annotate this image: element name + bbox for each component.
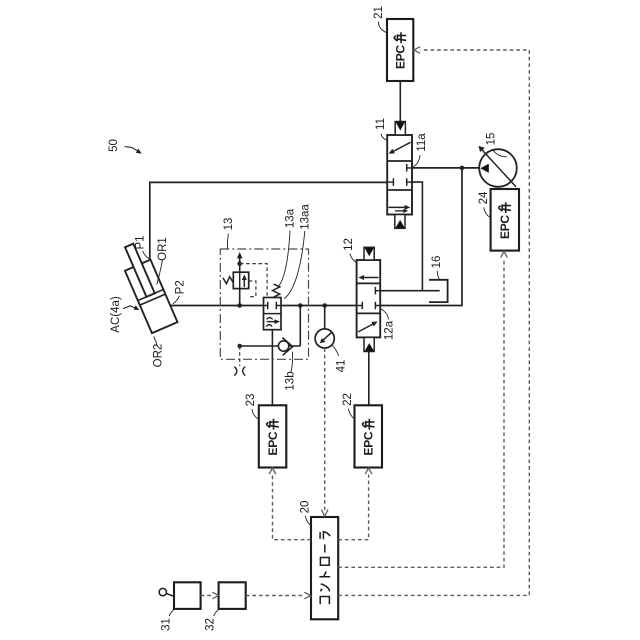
wire main P2 line from cylinder head-end right to valve 13a left port bbox=[171, 305, 264, 307]
throttle orifice on drain bbox=[234, 367, 245, 376]
EPC valve 23 box bbox=[259, 405, 287, 467]
valve 11 bottom pilot triangle bbox=[395, 220, 404, 228]
svg-text:24: 24 bbox=[478, 191, 490, 204]
chain-dot enclosure box 13 bbox=[220, 249, 308, 359]
wire from valve 11 lower-right port down to tank line bbox=[412, 182, 422, 291]
wire from EPC valve 21 down to valve 11 pilot bbox=[399, 81, 401, 121]
EPC valve 21 text bbox=[393, 32, 407, 69]
wire relief branch below square to main line bbox=[239, 289, 241, 306]
svg-text:20: 20 bbox=[299, 501, 311, 514]
arrow into EPC21 right bbox=[414, 47, 420, 54]
dashed drain line below branch dot bbox=[239, 346, 241, 366]
wire P1 line from cylinder rod-end up and right to valve 11 left port bbox=[150, 182, 387, 260]
arrow into controller top bbox=[321, 510, 328, 517]
lever box 31 bbox=[174, 582, 201, 609]
svg-text:22: 22 bbox=[342, 393, 354, 406]
svg-text:23: 23 bbox=[245, 394, 257, 407]
rod bbox=[125, 244, 155, 297]
arrow into EPC22 bottom bbox=[365, 468, 372, 474]
wire from valve 13a bottom through check line down to EPC valve 23 bbox=[271, 330, 273, 405]
pump triangle bbox=[480, 164, 488, 173]
arrowhead valve 12 top arrow left bbox=[358, 275, 364, 280]
svg-text:21: 21 bbox=[373, 6, 385, 19]
pump variable diagonal bbox=[482, 150, 516, 187]
svg-text:13b: 13b bbox=[285, 371, 297, 390]
sensor 41 bbox=[315, 329, 334, 348]
dashed controller to EPC 24 bbox=[338, 258, 504, 567]
svg-text:11: 11 bbox=[375, 118, 387, 130]
arrowhead valve 11 diagonal bbox=[389, 149, 395, 154]
svg-text:13: 13 bbox=[223, 218, 235, 231]
lower section throttle arcs bbox=[266, 318, 272, 327]
lever stem bbox=[166, 593, 174, 596]
valve 11 bottom pilot stub bbox=[395, 215, 405, 229]
dashed 32 to controller bbox=[246, 595, 304, 597]
dashed relief pilot loop bbox=[248, 281, 256, 297]
svg-text:P1: P1 bbox=[134, 235, 146, 249]
valve 11 body bbox=[387, 135, 412, 215]
EPC valve 24 text bbox=[498, 202, 512, 239]
wire sensor 41 branch from main line bbox=[324, 306, 326, 330]
arrow into EPC23 bottom bbox=[269, 468, 276, 474]
open arrowheads on dashed lines bbox=[212, 47, 507, 599]
valve 13a spring bbox=[273, 284, 280, 297]
wire from valve 12 bottom pilot down to EPC valve 22 bbox=[368, 352, 370, 405]
svg-text:AC(4a): AC(4a) bbox=[110, 296, 122, 333]
dashed sensor 41 to controller bbox=[324, 348, 326, 510]
svg-text:12: 12 bbox=[343, 238, 355, 251]
lever knob circle bbox=[159, 588, 166, 595]
junction dot lower branch bbox=[237, 344, 242, 349]
arrow into controller left bbox=[304, 592, 310, 599]
piston bbox=[138, 290, 165, 306]
wire relief branch above square to junction dot bbox=[239, 264, 241, 273]
arrow into EPC24 bottom bbox=[501, 251, 508, 257]
svg-text:16: 16 bbox=[431, 256, 443, 269]
dashed controller to EPC 21 bbox=[338, 50, 529, 595]
valve 12 top pilot triangle bbox=[364, 248, 374, 257]
lower section arrow shaft bbox=[267, 321, 277, 323]
arrowhead pump diagonal bbox=[478, 146, 484, 152]
svg-text:50: 50 bbox=[108, 139, 120, 152]
dashed controller to EPC 22 bbox=[338, 475, 368, 540]
pump 15 bbox=[479, 149, 517, 187]
valve 11 top pilot stub bbox=[395, 122, 405, 136]
top section diagonal arrow shaft bbox=[391, 142, 411, 152]
labels (rotated) bbox=[108, 6, 507, 631]
svg-text:11a: 11a bbox=[416, 133, 428, 152]
junction dot check branch bbox=[298, 303, 303, 308]
controller text コントローラ bbox=[319, 532, 330, 605]
arrowhead 13a lower right bbox=[274, 319, 280, 324]
wire tank line from valve 12 middle-right port into tank 16 bbox=[380, 290, 440, 292]
valve 13a body bbox=[264, 298, 282, 330]
valve 12 bottom pilot triangle bbox=[365, 343, 374, 351]
svg-text:P2: P2 bbox=[174, 280, 186, 294]
svg-text:OR1: OR1 bbox=[157, 237, 169, 261]
top section arrow shaft bbox=[362, 277, 379, 279]
valve 12 top pilot stub bbox=[364, 247, 374, 260]
EPC valve 23 text bbox=[266, 419, 280, 456]
valve 11 top pilot triangle bbox=[396, 122, 406, 131]
upper section port ticks bbox=[268, 302, 277, 310]
valve 12 body bbox=[357, 260, 381, 337]
EPC valve 22 box bbox=[355, 405, 383, 467]
valve 12 bottom pilot stub bbox=[364, 337, 374, 351]
arrowhead valve 11 bottom arrow 2 bbox=[403, 209, 408, 213]
dashed pilot line from junction to valve 13a top bbox=[240, 264, 267, 298]
svg-text:13aa: 13aa bbox=[300, 204, 312, 230]
middle ticks bbox=[362, 287, 375, 309]
svg-text:31: 31 bbox=[161, 618, 173, 631]
EPC valve 21 box bbox=[387, 19, 413, 81]
arrowhead relief inner up bbox=[242, 275, 247, 281]
cylinder AC(4a) tilted bbox=[116, 240, 177, 333]
dashed lever 31 to 32 bbox=[201, 595, 212, 597]
svg-text:32: 32 bbox=[204, 618, 216, 631]
relief spring bbox=[223, 277, 233, 284]
bottom section arrows bbox=[389, 206, 407, 208]
arrowhead valve 11 bottom arrow 1 bbox=[405, 205, 411, 210]
svg-text:OR2: OR2 bbox=[152, 344, 164, 368]
arrowhead sensor diag bbox=[320, 338, 326, 343]
label 50 arrow bbox=[125, 147, 139, 152]
dashed controller to EPC 23 bbox=[273, 475, 312, 540]
EPC valve 22 text bbox=[362, 419, 376, 456]
wire check branch from main line down bbox=[299, 306, 301, 347]
wire relief drain with arrow up bbox=[239, 256, 241, 264]
arrowhead valve 12 bottom diagonal bbox=[371, 322, 377, 327]
wire pump supply line from valve 11 right port to pump bbox=[412, 167, 481, 169]
box 32 bbox=[219, 582, 246, 609]
tank 16 bbox=[429, 280, 448, 302]
arrowhead relief drain up bbox=[237, 252, 243, 258]
EPC valve 24 box bbox=[491, 189, 519, 251]
middle ticks bbox=[393, 164, 406, 186]
dashed control lines bbox=[201, 50, 530, 596]
junction dot sensor branch bbox=[322, 303, 327, 308]
wire lower branch line y346 through check valve 13b bbox=[240, 345, 301, 347]
arrow into box32 left bbox=[212, 592, 218, 599]
junction dot relief main bbox=[237, 303, 242, 308]
svg-text:13a: 13a bbox=[284, 208, 296, 228]
wire main line from valve 13a right port to valve 12 lower-left port bbox=[281, 305, 357, 307]
check valve 13b bbox=[278, 341, 288, 351]
junction dot pump line bbox=[460, 166, 465, 171]
junction dot relief pilot bbox=[237, 261, 242, 266]
bottom diagonal arrow shaft bbox=[358, 323, 374, 332]
svg-text:15: 15 bbox=[485, 133, 497, 146]
relief valve square bbox=[233, 272, 248, 288]
svg-text:12a: 12a bbox=[384, 320, 396, 340]
controller 20 box bbox=[311, 517, 338, 619]
svg-text:41: 41 bbox=[335, 360, 347, 373]
wire from valve 12 lower-right port to pump junction bbox=[380, 168, 462, 306]
